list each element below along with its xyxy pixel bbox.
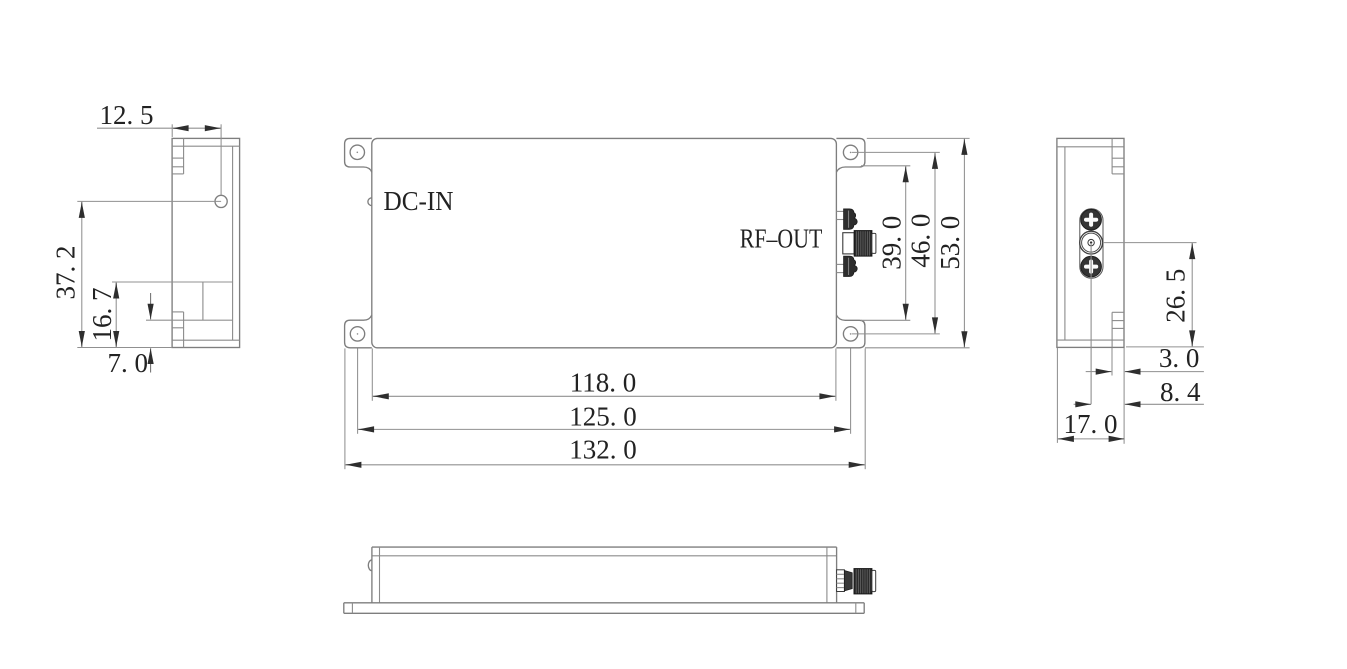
front view RF connector threaded barrel [854, 569, 872, 594]
svg-text:37. 2: 37. 2 [50, 246, 80, 300]
ear hole bottom-right [843, 327, 857, 341]
right view body outline [1057, 138, 1124, 347]
RF connector flange stadium outline [1080, 209, 1103, 278]
dimension 53.0 [867, 137, 970, 139]
mounting ear bottom-right [836, 315, 865, 348]
ear hole top-right [843, 145, 857, 159]
dimension 37.2 [77, 347, 172, 349]
svg-text:12. 5: 12. 5 [100, 100, 154, 130]
front view DC bump [368, 560, 372, 571]
dimension 39.0 [861, 165, 910, 167]
front view base plate [344, 602, 864, 604]
dimension 125.0 [357, 348, 359, 433]
mounting ear bottom-left [345, 315, 372, 348]
DC-IN connector bump on left edge [368, 198, 372, 206]
left view top band line [172, 145, 240, 147]
svg-text:8. 4: 8. 4 [1160, 377, 1201, 407]
ear hole top-left [350, 145, 364, 159]
dimension 26.5 [1103, 242, 1197, 244]
svg-text:7. 0: 7. 0 [108, 348, 149, 378]
svg-text:132. 0: 132. 0 [569, 434, 637, 464]
svg-text:118. 0: 118. 0 [570, 368, 637, 398]
right view bottom-right fin steps [1112, 311, 1124, 313]
dimension 8.4 [1074, 403, 1080, 405]
front view RF connector flange nut [837, 570, 845, 592]
dimension 118.0 [371, 348, 373, 400]
right view inner left wall line [1064, 147, 1066, 340]
left view hole centerline vertical [220, 124, 222, 195]
connector centerline down [1090, 243, 1092, 404]
left view bottom band line [172, 339, 240, 341]
front view right wall [826, 547, 828, 603]
right view top-right fin steps [1112, 157, 1124, 159]
front view RF connector mid block [844, 571, 852, 591]
left view connector bottom line / 7.0 extension [146, 319, 233, 321]
dimension 17.0 [1056, 348, 1058, 443]
RF connector body plate [843, 233, 854, 254]
svg-text:17. 0: 17. 0 [1064, 409, 1118, 439]
coaxial connector center [1080, 231, 1103, 254]
left view bottom-left fin steps [172, 311, 184, 313]
main body outline [372, 138, 837, 347]
dimension 7.0 [150, 293, 152, 319]
svg-text:125. 0: 125. 0 [569, 401, 637, 431]
left view inner right wall line [232, 146, 234, 340]
dimension 132.0 [344, 348, 346, 469]
RF connector screw stems top [836, 210, 843, 212]
RF connector end cap [872, 233, 876, 253]
flange screw bottom [1081, 256, 1102, 277]
svg-text:16. 7: 16. 7 [87, 288, 117, 342]
left view body outline [172, 138, 240, 347]
right view bottom band line [1057, 339, 1124, 341]
front view RF connector end cap [872, 570, 876, 591]
front view left wall [371, 547, 373, 603]
left view hole centerline horizontal [77, 200, 221, 202]
dimension 3.0 [1111, 348, 1113, 376]
dimension 16.7 [115, 282, 117, 348]
dimension 46.0 [852, 151, 940, 153]
ear hole center dots [357, 152, 852, 335]
flange screw top [1081, 209, 1102, 230]
ear hole bottom-left [350, 327, 364, 341]
dimension 12.5 [171, 124, 173, 137]
right view top band line [1057, 146, 1124, 148]
front view lid top edge [372, 546, 837, 548]
mounting ear top-left [345, 138, 372, 172]
left view top-left fin steps [172, 157, 184, 159]
mounting ear top-right [836, 138, 865, 172]
right view inner right wall line [1111, 138, 1113, 174]
left view connector top line / 16.7 extension [112, 281, 233, 283]
left view DC connector box [202, 282, 204, 320]
svg-text:DC-IN: DC-IN [384, 186, 454, 216]
svg-text:39. 0: 39. 0 [876, 216, 906, 270]
svg-text:26. 5: 26. 5 [1161, 269, 1191, 323]
svg-text:46. 0: 46. 0 [906, 214, 936, 268]
RF connector screw head bottom [844, 256, 858, 276]
left view mounting hole [215, 195, 227, 207]
front view lid bottom line [372, 555, 837, 557]
RF connector screw head top [844, 209, 858, 229]
RF connector screw stems bottom [836, 263, 843, 265]
RF connector threaded barrel [854, 231, 872, 257]
svg-text:53. 0: 53. 0 [935, 216, 965, 270]
svg-text:RF–OUT: RF–OUT [740, 223, 823, 253]
svg-text:3. 0: 3. 0 [1159, 343, 1200, 373]
